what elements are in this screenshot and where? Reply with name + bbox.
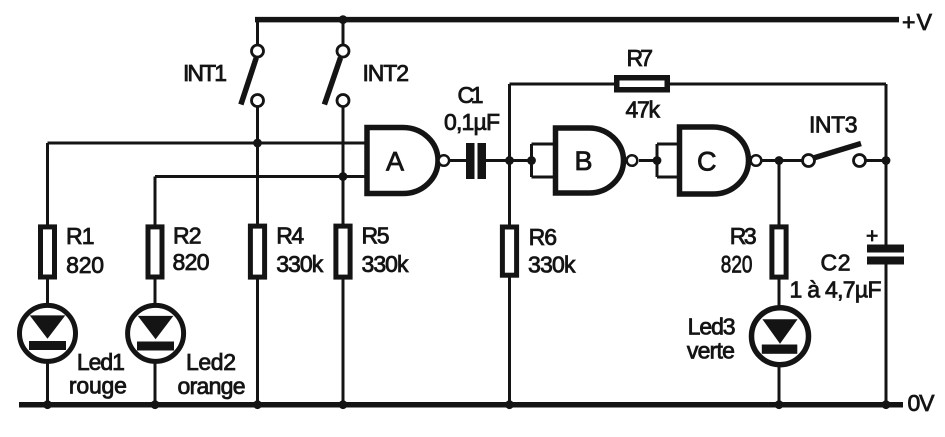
svg-text:C: C <box>697 147 717 177</box>
svg-text:verte: verte <box>687 338 735 364</box>
svg-text:R3: R3 <box>730 223 757 249</box>
NAND gate B <box>556 128 638 193</box>
svg-text:orange: orange <box>178 373 246 399</box>
node INT2 tap on +V rail <box>339 15 348 24</box>
resistor R7 <box>617 78 668 90</box>
resistor R5 <box>336 226 350 277</box>
node Led3 on 0V rail <box>775 400 784 409</box>
svg-text:47k: 47k <box>626 97 661 123</box>
resistor R4 <box>250 226 264 277</box>
wire R6 / R7 node vertical <box>508 84 511 405</box>
svg-text:R1: R1 <box>66 223 95 249</box>
wire gate A output to C1 <box>449 159 471 162</box>
svg-text:Led2: Led2 <box>186 349 236 375</box>
resistor R1 <box>41 227 55 277</box>
svg-text:C2: C2 <box>821 250 851 276</box>
LED Led1 <box>20 305 76 361</box>
svg-text:INT2: INT2 <box>363 60 410 86</box>
svg-text:R4: R4 <box>276 223 304 249</box>
wire C2 node up to R7 feedback <box>885 84 888 250</box>
capacitor C1 <box>466 143 486 179</box>
svg-text:0,1µF: 0,1µF <box>444 109 500 135</box>
wire C1 to gate B input node <box>482 159 532 162</box>
node C2 on 0V rail <box>882 400 891 409</box>
resistor R2 <box>148 227 162 277</box>
NAND gate A <box>367 128 449 194</box>
wire R3 branch down to 0V <box>778 161 781 406</box>
wire R1 branch down to 0V <box>46 143 49 405</box>
svg-text:INT1: INT1 <box>183 60 227 86</box>
wire gate B input tie bracket <box>532 144 558 177</box>
NAND gate C <box>680 127 762 194</box>
capacitor C2 <box>866 225 904 265</box>
svg-text:INT3: INT3 <box>809 112 858 138</box>
node R6 on 0V rail <box>505 400 514 409</box>
svg-text:B: B <box>575 146 593 176</box>
wire R7 feedback line <box>510 83 887 86</box>
switch INT2 <box>324 45 349 107</box>
wire INT1 drop from +V rail <box>256 17 259 44</box>
switch INT3 <box>803 144 866 167</box>
svg-text:330k: 330k <box>528 252 576 278</box>
wire C2 bottom plate to 0V <box>885 260 888 405</box>
node R2 on 0V rail <box>151 400 160 409</box>
wire INT3 to C2 node <box>867 159 887 162</box>
svg-text:820: 820 <box>721 250 753 278</box>
svg-text:R2: R2 <box>173 222 202 248</box>
svg-text:330k: 330k <box>362 251 410 277</box>
svg-text:R7: R7 <box>627 45 654 71</box>
wire INT2 lower contact through R5 to 0V <box>342 108 345 406</box>
wire gate C input tie bracket <box>657 144 681 177</box>
node INT1 / gate A top input <box>253 139 262 148</box>
svg-text:Led3: Led3 <box>688 314 736 340</box>
node INT3 / R7 / C2 junction <box>882 156 891 165</box>
node gate B input <box>527 156 536 165</box>
node R4 on 0V rail <box>253 400 262 409</box>
node R5 on 0V rail <box>339 400 348 409</box>
svg-text:A: A <box>386 147 404 177</box>
wire gate A bottom input line <box>155 175 368 178</box>
svg-text:rouge: rouge <box>69 373 127 399</box>
svg-text:C1: C1 <box>458 82 484 108</box>
node gate C output / R3 branch <box>775 156 784 165</box>
wire INT2 drop from +V rail <box>342 17 345 44</box>
wire gate A top input line <box>48 142 369 145</box>
resistor R6 <box>502 227 516 275</box>
svg-text:820: 820 <box>173 249 210 275</box>
wire INT1 lower contact through R4 to 0V <box>256 108 259 406</box>
LED Led2 <box>128 305 184 361</box>
svg-text:0V: 0V <box>908 390 936 416</box>
wire gate B output to gate C input <box>639 159 657 162</box>
wire R2 branch down to 0V <box>154 177 157 406</box>
svg-text:Led1: Led1 <box>77 349 125 375</box>
svg-text:330k: 330k <box>276 251 324 277</box>
svg-text:+: + <box>866 225 878 248</box>
svg-text:820: 820 <box>66 252 104 278</box>
svg-text:+V: +V <box>902 9 933 35</box>
node INT2 / gate A bottom input <box>339 172 348 181</box>
node gate C input <box>653 156 662 165</box>
node R1 on 0V rail <box>43 400 52 409</box>
wire gate C output to INT3 <box>762 159 802 162</box>
svg-text:1 à 4,7µF: 1 à 4,7µF <box>790 276 882 302</box>
LED Led3 <box>752 308 809 365</box>
resistor R3 <box>772 227 786 277</box>
+V rail <box>255 17 899 23</box>
svg-text:R6: R6 <box>529 224 558 250</box>
switch INT1 <box>241 45 264 107</box>
svg-text:R5: R5 <box>362 223 390 249</box>
node C1 / R6 / R7 junction <box>505 156 514 165</box>
0V rail <box>19 402 903 408</box>
